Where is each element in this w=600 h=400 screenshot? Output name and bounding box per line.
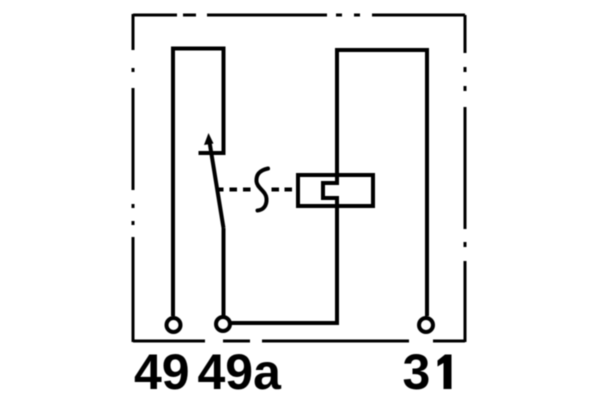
svg-text:3: 3 [403, 344, 431, 400]
svg-text:49: 49 [134, 344, 190, 400]
svg-text:49a: 49a [198, 344, 283, 400]
